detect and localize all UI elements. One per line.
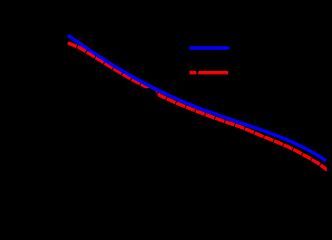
legend blue line sample (190, 46, 230, 49)
blue solid data curve (68, 35, 326, 161)
legend red dashed line sample (190, 71, 197, 74)
red dashed data curve (68, 43, 327, 169)
